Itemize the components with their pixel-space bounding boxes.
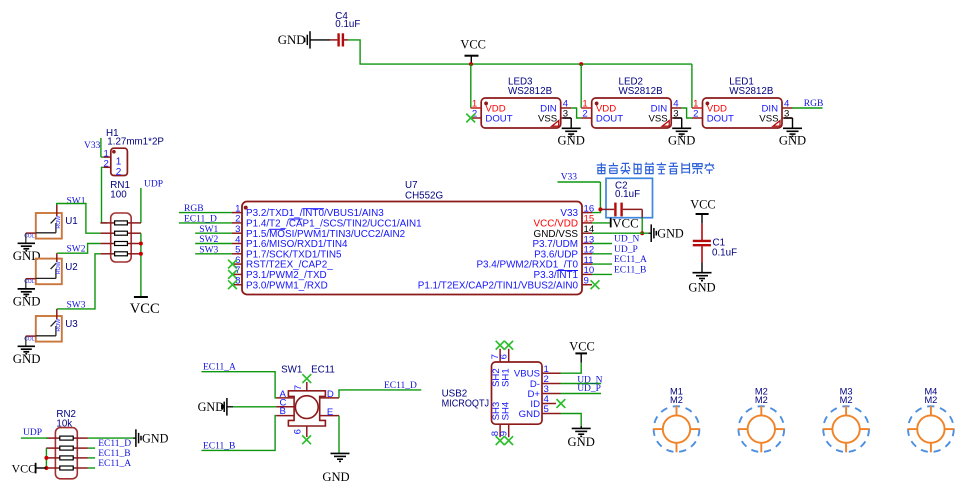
- svg-text:EC11_B: EC11_B: [614, 266, 646, 276]
- ground (LED2 VSS): [673, 117, 682, 119]
- svg-text:2: 2: [582, 109, 587, 120]
- junction (RN1 pin4 / VCC): [139, 252, 143, 256]
- RN2 resistor element 1: [46, 437, 60, 439]
- svg-text:0.1uF: 0.1uF: [615, 189, 640, 200]
- svg-text:6: 6: [292, 429, 303, 434]
- junction (RN1 pin3 / VCC): [139, 242, 143, 246]
- svg-text:P1.1/T2EX/CAP2/TIN1/VBUS2/AIN0: P1.1/T2EX/CAP2/TIN1/VBUS2/AIN0: [418, 280, 579, 291]
- svg-text:RGB: RGB: [804, 99, 824, 109]
- ground (U3): [25, 336, 27, 346]
- net label SW1 (U7): [195, 232, 232, 234]
- svg-text:GND: GND: [779, 134, 806, 148]
- svg-text:2: 2: [103, 159, 108, 170]
- wire VBUS to VCC: [561, 363, 582, 374]
- svg-text:V33: V33: [561, 172, 578, 182]
- svg-text:GND: GND: [519, 409, 540, 420]
- wire pin D to EC11_D: [339, 390, 421, 398]
- switch U3: [36, 316, 62, 342]
- no-connect X (U7 pin9): [591, 280, 600, 289]
- USB2 pin 7 SH2: [499, 349, 501, 362]
- svg-text:EC11_A: EC11_A: [203, 362, 236, 372]
- SW1 pin D: [320, 397, 339, 399]
- svg-text:0.1uF: 0.1uF: [335, 19, 360, 30]
- svg-text:GND: GND: [198, 400, 225, 414]
- svg-text:M2: M2: [670, 395, 683, 405]
- U7 pin 8: [232, 284, 242, 286]
- svg-text:9: 9: [499, 431, 510, 436]
- U7 pin 9: [582, 284, 592, 286]
- svg-text:VCC: VCC: [460, 38, 485, 52]
- switch U1: [36, 213, 62, 239]
- svg-text:M2: M2: [755, 395, 768, 405]
- wire UDP to RN1: [140, 188, 142, 223]
- wire RN2 pins 2-4 rail: [45, 448, 47, 468]
- U7 pin 6: [232, 263, 242, 265]
- svg-text:EC11_B: EC11_B: [98, 449, 130, 459]
- wire drop LED2 VDD: [580, 64, 582, 108]
- U7 pin 14: [582, 232, 592, 234]
- LED2 pin 1 VDD: [581, 107, 592, 109]
- net label EC11_D (RN2): [88, 447, 95, 449]
- RN1 resistor element 4: [100, 253, 114, 255]
- svg-text:ROW: ROW: [56, 319, 62, 332]
- svg-text:VSS: VSS: [538, 113, 557, 124]
- ground (U2): [25, 279, 27, 289]
- svg-text:9: 9: [584, 276, 589, 287]
- ground (SW1 pin E): [331, 452, 350, 454]
- svg-text:SW3: SW3: [199, 245, 218, 255]
- svg-text:GND: GND: [688, 280, 715, 294]
- svg-text:GND: GND: [13, 352, 41, 366]
- svg-text:U1: U1: [65, 216, 78, 227]
- LED3 pin 1 VDD: [471, 107, 482, 109]
- svg-text:SH1: SH1: [501, 368, 512, 387]
- wire VCC bus: [348, 40, 692, 64]
- SW1 pin 7: [306, 382, 308, 391]
- svg-text:UDP: UDP: [23, 428, 42, 438]
- no-connect X (USB2 pin6): [504, 341, 513, 350]
- svg-text:EC11: EC11: [311, 364, 335, 375]
- wire EC11_A to pin A: [202, 372, 277, 398]
- no-connect X (USB2 pin7): [496, 341, 505, 350]
- no-connect X (LED3 DOUT): [466, 114, 475, 123]
- wire H1 pin2 to RN1 pin1: [102, 167, 108, 223]
- USB2 pin 9 SH4: [508, 424, 510, 437]
- svg-text:2: 2: [116, 167, 122, 178]
- USB2 pin 2 D-: [542, 383, 561, 385]
- U7 pin 12: [582, 253, 592, 255]
- wire V33 to H1 pin 1: [100, 138, 102, 157]
- LED3 pin 4 DIN: [561, 107, 572, 109]
- wire SW1 to RN1 pin2: [57, 204, 101, 234]
- svg-text:SW1: SW1: [67, 197, 86, 207]
- svg-text:5: 5: [544, 404, 549, 415]
- ground (U1): [25, 233, 27, 243]
- svg-text:VCC: VCC: [690, 198, 715, 212]
- svg-text:U3: U3: [65, 319, 78, 330]
- svg-text:UDP: UDP: [144, 179, 163, 189]
- LED2 pin 3 VSS: [671, 117, 682, 119]
- svg-text:6: 6: [499, 354, 510, 359]
- no-connect X (USB2 pin9): [504, 436, 513, 445]
- svg-text:SW1: SW1: [199, 225, 218, 235]
- junction (pin16 / C2): [598, 207, 602, 211]
- svg-text:DOUT: DOUT: [596, 113, 623, 124]
- svg-text:U2: U2: [65, 262, 78, 273]
- ground (U7 pin14): [648, 232, 650, 234]
- RN1 resistor element 1: [100, 222, 114, 224]
- svg-text:1.27mm1*2P: 1.27mm1*2P: [107, 136, 164, 147]
- svg-text:MICROQTJ: MICROQTJ: [442, 399, 490, 410]
- LED2 pin 4 DIN: [671, 107, 682, 109]
- svg-text:GND: GND: [322, 470, 349, 484]
- U7 pin 2: [232, 222, 242, 224]
- SW1 pin E: [320, 415, 339, 417]
- svg-text:EC11_A: EC11_A: [98, 459, 131, 469]
- wire GND to pin C: [233, 406, 276, 408]
- svg-text:SW1: SW1: [281, 364, 302, 375]
- wire drop LED3 VDD: [470, 64, 472, 108]
- svg-text:M2: M2: [840, 395, 853, 405]
- wire V33 to C2/pin16: [558, 181, 601, 183]
- net label UD_N (USB2): [561, 383, 602, 385]
- svg-text:EC11_D: EC11_D: [184, 215, 217, 225]
- net label RGB (U7): [179, 212, 232, 214]
- LED1 pin 1 VDD: [692, 107, 703, 109]
- USB2 pin 5 GND: [542, 413, 561, 415]
- ground (RN2 pin1): [133, 437, 135, 439]
- svg-text:0.1uF: 0.1uF: [712, 247, 737, 258]
- svg-text:V33: V33: [84, 141, 101, 151]
- svg-text:GND: GND: [558, 134, 585, 148]
- net label SW3 (U7): [195, 253, 232, 255]
- net label SW2 (U7): [195, 243, 232, 245]
- svg-text:DOUT: DOUT: [707, 113, 734, 124]
- wire RN1 pins 2-4 to VCC rail: [140, 233, 142, 297]
- junction (RN2 pin3): [44, 456, 48, 460]
- net label UD_P (USB2): [561, 393, 602, 395]
- svg-text:E: E: [327, 407, 333, 418]
- U7 pin 3: [232, 232, 242, 234]
- svg-text:CH552G: CH552G: [405, 191, 443, 202]
- switch U2: [36, 259, 62, 285]
- svg-text:WS2812B: WS2812B: [729, 86, 774, 97]
- svg-text:RGB: RGB: [184, 204, 204, 214]
- ground (SW1 pin C): [227, 406, 233, 408]
- svg-text:GND: GND: [668, 134, 695, 148]
- wire USB GND pin to ground: [561, 414, 582, 426]
- ground (LED1 VSS): [784, 117, 793, 119]
- SW1 pin 6: [306, 426, 308, 437]
- net label EC11_A (RN2): [88, 467, 95, 469]
- net label UDP (RN2): [21, 437, 48, 439]
- U7 pin 11: [582, 263, 592, 265]
- net label EC11_A (U7): [592, 263, 612, 265]
- wire LED2 DIN to LED1 DOUT: [682, 108, 692, 118]
- RN1 resistor element 3: [100, 243, 114, 245]
- svg-text:B: B: [280, 406, 286, 417]
- svg-text:ROW: ROW: [56, 261, 62, 274]
- USB2 pin 3 D+: [542, 393, 561, 395]
- SW1 pin B: [276, 415, 294, 417]
- svg-text:VCC: VCC: [12, 461, 37, 475]
- svg-text:GND: GND: [278, 33, 306, 47]
- svg-text:7: 7: [293, 385, 304, 390]
- SW1 pin C: [276, 406, 294, 408]
- svg-text:UD_P: UD_P: [614, 245, 638, 255]
- ground (LED3 VSS): [563, 117, 572, 119]
- junction (VCC bus / LED3): [469, 62, 473, 66]
- U7 pin 5: [232, 253, 242, 255]
- U7 pin 13: [582, 243, 592, 245]
- svg-text:EC11_A: EC11_A: [614, 255, 647, 265]
- svg-text:VSS: VSS: [759, 113, 778, 124]
- wire pin E to GND: [338, 416, 340, 454]
- LED2 pin 2 DOUT: [581, 117, 592, 119]
- power VCC (USB2): [580, 353, 582, 362]
- wire drop LED1 VDD: [691, 64, 693, 108]
- U7 pin 16: [582, 212, 592, 214]
- USB2 pin 1 VBUS: [542, 372, 561, 374]
- svg-text:ROW: ROW: [56, 216, 62, 229]
- net label EC11_B (U7): [592, 273, 612, 275]
- svg-text:U7: U7: [405, 180, 418, 191]
- svg-text:VCC: VCC: [612, 217, 638, 231]
- U7 pin 1: [232, 212, 242, 214]
- svg-text:GND: GND: [568, 435, 595, 449]
- wire LED3 DIN to LED2 DOUT: [571, 108, 581, 118]
- svg-text:VCC: VCC: [569, 340, 594, 354]
- net label EC11_B (RN2): [88, 457, 95, 459]
- no-connect X (USB2 pin8): [496, 436, 505, 445]
- net label UD_P (U7): [592, 253, 612, 255]
- svg-text:P3.0/PWM1_/RXD: P3.0/PWM1_/RXD: [246, 280, 328, 291]
- power VCC (RN2): [36, 467, 46, 469]
- no-connect X (SW1 pin6): [302, 435, 311, 444]
- annotation box (decoupling cap): [606, 178, 653, 217]
- capacitor C1 0.1uF: [701, 224, 703, 240]
- LED1 pin 2 DOUT: [692, 117, 703, 119]
- svg-text:D: D: [327, 389, 334, 400]
- junction (RN2 pin4 / VCC): [44, 466, 48, 470]
- svg-text:EC11_D: EC11_D: [98, 439, 131, 449]
- wire SW2 to RN1 pin3: [57, 244, 101, 254]
- LED1 pin 4 DIN: [782, 107, 793, 109]
- wire SW3 to RN1 pin4: [57, 254, 101, 309]
- svg-text:VCC: VCC: [130, 301, 160, 317]
- ground (C1): [701, 263, 703, 273]
- svg-text:GND: GND: [657, 227, 684, 241]
- H1 pin 2: [103, 166, 111, 168]
- U7 pin 10: [582, 273, 592, 275]
- no-connect X (SW1 pin7): [302, 374, 311, 383]
- svg-text:100: 100: [110, 190, 127, 201]
- wire EC11_B to pin B: [202, 416, 277, 451]
- U7 pin 7: [232, 273, 242, 275]
- annotation text: decoupling capacitor required (Chinese): [597, 163, 606, 174]
- net label EC11_D (U7): [179, 222, 232, 224]
- no-connect X (USB2 ID): [557, 399, 566, 408]
- RN2 resistor element 2: [46, 447, 60, 449]
- svg-text:SH4: SH4: [501, 401, 512, 420]
- USB2 pin 8 SH3: [499, 424, 501, 437]
- svg-text:WS2812B: WS2812B: [619, 86, 664, 97]
- RN2 resistor element 3: [46, 457, 60, 459]
- svg-text:GND: GND: [13, 294, 41, 308]
- svg-text:DOUT: DOUT: [485, 113, 512, 124]
- svg-text:1: 1: [116, 157, 122, 168]
- U7 pin 4: [232, 243, 242, 245]
- SW1 pin A: [276, 397, 294, 399]
- svg-text:UD_N: UD_N: [614, 235, 639, 245]
- RN2 resistor element 4: [46, 467, 60, 469]
- wire: [310, 39, 330, 41]
- USB2 pin 6 SH1: [508, 349, 510, 362]
- LED3 pin 3 VSS: [561, 117, 572, 119]
- svg-text:M2: M2: [924, 395, 937, 405]
- USB2 pin 4 ID: [542, 403, 556, 405]
- junction (C2 / GND wire): [640, 231, 644, 235]
- ground (USB2 pin5): [580, 426, 582, 429]
- wire RN2 pin1 to GND: [88, 437, 133, 439]
- svg-text:VSS: VSS: [648, 113, 667, 124]
- junction (bus / LED2): [579, 62, 583, 66]
- LED3 pin 2 DOUT: [471, 117, 482, 119]
- H1 pin 1: [103, 156, 111, 158]
- svg-text:2: 2: [693, 109, 698, 120]
- U7 pin 15: [582, 222, 592, 224]
- svg-text:GND: GND: [142, 432, 169, 446]
- wire C2 to GND/VSS: [641, 209, 643, 217]
- svg-text:SW2: SW2: [199, 235, 218, 245]
- svg-text:WS2812B: WS2812B: [508, 86, 553, 97]
- wire GND/VSS: [592, 232, 648, 234]
- power VCC (RN1): [134, 296, 148, 298]
- power VCC (U7 pin15): [592, 222, 610, 224]
- wire LED1 DIN to RGB: [792, 107, 823, 109]
- net label UD_N (U7): [592, 243, 612, 245]
- svg-text:UD_P: UD_P: [577, 384, 601, 394]
- LED1 pin 3 VSS: [782, 117, 793, 119]
- RN1 resistor element 2: [100, 232, 114, 234]
